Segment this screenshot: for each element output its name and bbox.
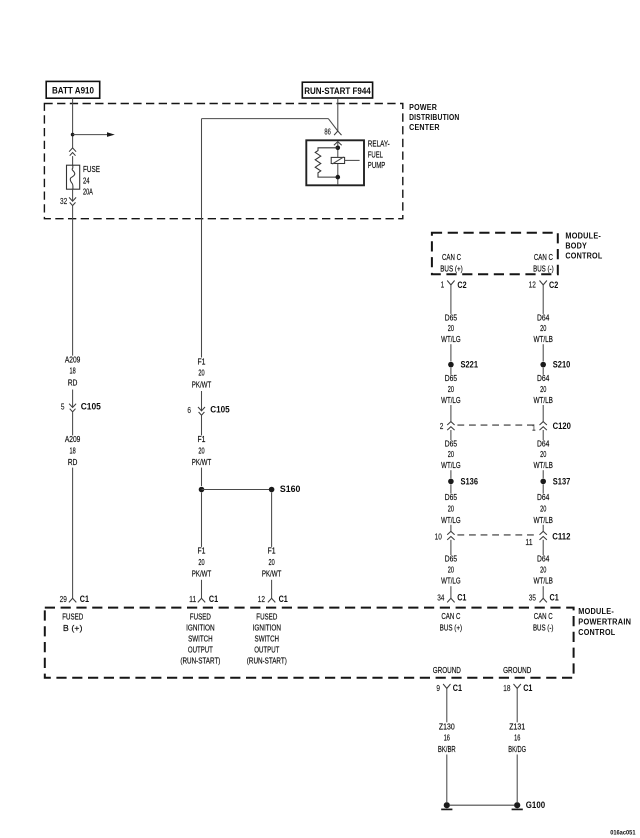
connector C120 right half pin 1 [532,421,571,432]
svg-text:BUS (+): BUS (+) [440,263,463,273]
relay pin 86 chevron inside [334,142,342,146]
wire D64 20 WT/LB segment 1 [542,285,544,314]
power distribution center dashed box [44,104,402,219]
svg-text:IGNITION: IGNITION [253,623,282,633]
svg-text:D64: D64 [537,373,549,383]
svg-text:20: 20 [448,504,454,514]
wire between ground points [450,804,514,806]
svg-text:20: 20 [540,504,546,514]
svg-text:C2: C2 [549,280,558,290]
svg-text:F1: F1 [198,357,206,367]
wire run-start feed down to C105 [201,119,203,358]
connector C1 pin 29 fork [60,594,89,604]
wire right leg to PCM pin 12 [271,580,273,599]
wire from RUN-START F944 down to relay pin 86 [337,98,339,131]
svg-text:C112: C112 [552,532,570,542]
svg-text:1: 1 [441,281,445,290]
relay coil winding [315,148,338,177]
svg-text:F1: F1 [198,545,206,555]
svg-text:BODY: BODY [565,241,587,250]
wire D64 segment 7 [542,485,544,494]
wire D65 segment 4 [450,405,452,422]
svg-text:MODULE-: MODULE- [578,607,614,616]
svg-text:D65: D65 [445,554,457,564]
svg-text:C1: C1 [80,594,89,604]
svg-text:D65: D65 [445,312,457,322]
svg-text:OUTPUT: OUTPUT [254,644,279,654]
wire D65 segment 10 [450,586,452,598]
svg-text:A209: A209 [65,355,81,365]
svg-text:86: 86 [324,128,331,137]
wire label A209 18 RD [65,355,81,388]
svg-text:(RUN-START): (RUN-START) [247,656,287,666]
svg-text:RELAY-: RELAY- [368,138,390,148]
wire label D65 20 WT/LG block 4 [441,492,461,525]
label FUSED IGNITION SWITCH OUTPUT (RUN-START) left [180,612,220,666]
wire D64 segment 6 [542,470,544,478]
svg-text:WT/LG: WT/LG [441,515,461,525]
label RELAY-FUEL PUMP [368,138,390,170]
wire below fuse [72,189,74,201]
wire down to splice S160 [201,468,203,486]
svg-text:F1: F1 [198,434,206,444]
svg-text:9: 9 [436,684,440,693]
svg-text:POWERTRAIN: POWERTRAIN [578,617,631,626]
svg-text:GROUND: GROUND [433,665,461,675]
svg-text:10: 10 [435,532,443,541]
wire label D64 20 WT/LB block 2 [533,373,553,405]
wire label D64 20 WT/LB block 1 [533,312,553,344]
svg-text:D64: D64 [537,554,549,564]
wire Z130 lower segment to ground [446,755,448,803]
wire below C105 left [72,412,74,435]
wire D64 segment 10 [542,586,544,598]
connector C1 pin 12 fork [258,594,288,604]
svg-text:C2: C2 [457,280,466,290]
svg-text:C1: C1 [523,683,532,693]
connector C105 pin 5 [61,402,101,412]
wire D65 segment 9 [450,540,452,555]
node junction at battery feed [71,133,75,137]
label GROUND left [433,665,461,675]
wire Z131 16 BK/DG upper segment [516,688,518,722]
svg-text:D65: D65 [445,373,457,383]
connector C1 pin 34 fork [437,592,466,602]
svg-text:GROUND: GROUND [503,665,531,675]
diagram id 016ac051 [610,830,636,837]
svg-text:C1: C1 [279,594,288,604]
wire above C105 pin 5 [72,390,74,408]
label MODULE-POWERTRAIN CONTROL [578,607,631,637]
power source label RUN-START F944 [302,82,372,98]
svg-text:16: 16 [514,733,520,743]
wire D64 segment 9 [542,540,544,555]
svg-text:CAN C: CAN C [534,252,553,262]
label FUSED B (+) [62,612,83,633]
svg-text:RD: RD [68,378,78,388]
svg-text:FUSED: FUSED [190,612,211,622]
svg-text:20: 20 [448,564,454,574]
splice S210 [540,360,570,370]
svg-text:D64: D64 [537,312,549,322]
svg-text:C120: C120 [553,421,571,431]
label GROUND right [503,665,531,675]
power source label BATT A910 [46,81,99,98]
svg-text:CAN C: CAN C [534,611,553,621]
ground G100 [512,800,545,810]
svg-text:S160: S160 [280,484,301,494]
wire label D64 20 WT/LB block 4 [533,492,553,525]
connector C120 left half pin 2 [440,422,455,431]
svg-text:MODULE-: MODULE- [565,231,601,240]
svg-text:S210: S210 [553,360,571,370]
svg-text:S221: S221 [461,360,479,370]
svg-text:BUS (+): BUS (+) [440,622,463,632]
label MODULE-BODY CONTROL [565,231,602,260]
dashed link C112 [457,534,535,536]
wire D64 segment 5 [542,430,544,440]
svg-text:CAN C: CAN C [441,611,460,621]
connector C1 pin 11 fork [189,594,218,604]
svg-text:CAN C: CAN C [442,252,461,262]
wire label F1 20 PK/WT right leg [262,545,282,578]
svg-text:WT/LG: WT/LG [441,334,461,344]
splice S221 [448,360,478,370]
svg-text:(RUN-START): (RUN-START) [180,656,220,666]
svg-text:WT/LG: WT/LG [441,460,461,470]
wire D65 segment 6 [450,470,452,478]
wire D65 segment 2 [450,344,452,361]
svg-text:12: 12 [529,281,537,290]
svg-text:CENTER: CENTER [409,123,440,132]
wire D64 segment 2 [542,344,544,361]
wire label D65 20 WT/LG block 5 [441,554,461,586]
wire fuse to C105 [72,206,74,356]
label CAN C BUS (-) powertrain [533,611,554,632]
svg-text:20: 20 [448,384,454,394]
label POWER DISTRIBUTION CENTER [409,103,459,132]
wire D64 segment 4 [542,405,544,422]
svg-text:6: 6 [187,406,191,415]
wire D64 segment 8 [542,525,544,532]
wire right leg below S160 [271,492,273,547]
svg-text:C105: C105 [210,405,230,415]
svg-text:20: 20 [198,368,204,378]
svg-text:20: 20 [269,557,275,567]
svg-text:F1: F1 [268,545,276,555]
svg-text:FUSE: FUSE [83,164,100,174]
connector pin 32 chevrons [60,197,76,206]
connector C105 pin 6 [187,405,229,416]
svg-text:IGNITION: IGNITION [186,623,215,633]
svg-text:20: 20 [448,449,454,459]
relay coil terminal node bottom [336,175,341,180]
connector pin 86 fork [324,128,341,137]
splice S136 [448,476,478,486]
svg-text:20: 20 [198,446,204,456]
svg-text:18: 18 [70,446,76,456]
svg-text:20: 20 [448,323,454,333]
svg-text:24: 24 [83,175,90,185]
svg-text:PK/WT: PK/WT [192,457,212,467]
svg-text:5: 5 [61,403,65,412]
label CAN C BUS (+) body [440,252,463,273]
svg-text:34: 34 [437,594,445,603]
relay switch contact [331,157,344,164]
svg-text:BUS (-): BUS (-) [533,263,554,273]
svg-text:20: 20 [198,557,204,567]
svg-text:FUSED: FUSED [62,612,83,622]
svg-text:PK/WT: PK/WT [192,569,212,579]
wire label F1 20 PK/WT left leg [192,545,212,578]
svg-text:C1: C1 [453,683,462,693]
wire label Z131 16 BK/DG [508,722,526,755]
svg-text:C1: C1 [550,592,559,602]
svg-text:PK/WT: PK/WT [262,569,282,579]
wire from BATT A910 to fuse [72,98,74,148]
svg-text:OUTPUT: OUTPUT [188,644,213,654]
svg-text:WT/LB: WT/LB [533,395,553,405]
svg-text:WT/LB: WT/LB [533,515,553,525]
svg-text:BUS (-): BUS (-) [533,622,554,632]
svg-text:16: 16 [444,733,450,743]
svg-text:20: 20 [540,384,546,394]
svg-text:BK/BR: BK/BR [438,744,456,754]
module-powertrain control dashed box [45,608,574,678]
wire D65 segment 8 [450,525,452,532]
svg-text:D64: D64 [537,438,549,448]
svg-text:WT/LB: WT/LB [533,334,553,344]
svg-text:2: 2 [440,422,444,431]
connector C2 pin 12 fork [529,280,559,290]
label FUSE 24 20A [83,164,100,196]
svg-text:D65: D65 [445,492,457,502]
wire Z131 lower segment to ground [516,755,518,803]
svg-text:BK/DG: BK/DG [508,744,526,754]
dashed link C120 [457,424,535,426]
svg-text:C1: C1 [457,592,466,602]
relay center conductor [337,142,339,185]
connector C2 pin 1 fork [441,280,467,290]
svg-text:D64: D64 [537,492,549,502]
wire D64 segment 3 [542,368,544,375]
svg-text:WT/LB: WT/LB [533,460,553,470]
svg-text:WT/LG: WT/LG [441,395,461,405]
svg-text:20: 20 [540,323,546,333]
wire label D64 20 WT/LB block 5 [533,554,553,586]
svg-text:A209: A209 [65,434,81,444]
svg-text:11: 11 [189,595,197,604]
wire below C105 pin 6 [201,416,203,436]
svg-text:12: 12 [258,595,266,604]
svg-text:S137: S137 [553,476,571,486]
svg-text:SWITCH: SWITCH [188,633,213,643]
wire label Z130 16 BK/BR [438,722,456,755]
svg-text:CONTROL: CONTROL [578,628,615,637]
svg-text:11: 11 [525,538,533,547]
svg-text:CONTROL: CONTROL [565,251,602,260]
wire left leg below S160 [201,492,203,547]
splice S137 [540,476,570,486]
connector chevrons above fuse [69,148,76,156]
label CAN C BUS (-) body [533,252,554,273]
wire above C105 pin 6 [201,391,203,411]
splice S160 [199,484,301,494]
wire label D65 20 WT/LG block 2 [441,373,461,405]
wire Z130 16 BK/BR upper segment [446,688,448,722]
svg-text:G100: G100 [526,800,545,810]
svg-text:BATT A910: BATT A910 [52,85,94,95]
relay coil terminal node top [336,146,341,151]
connector C1 pin 35 fork [529,592,559,602]
fuse 24 20A [67,165,80,189]
svg-text:20: 20 [540,449,546,459]
svg-text:FUSED: FUSED [256,612,277,622]
wire D65 segment 5 [450,430,452,440]
svg-text:Z130: Z130 [439,722,455,732]
wire into fuse [72,156,74,165]
wire branch arrow to right [73,132,115,137]
svg-text:RUN-START F944: RUN-START F944 [304,86,371,96]
wire label D65 20 WT/LG block 1 [441,312,461,344]
svg-text:RD: RD [68,457,78,467]
svg-text:35: 35 [529,594,537,603]
svg-text:32: 32 [60,197,68,206]
svg-text:PUMP: PUMP [368,160,386,170]
relay armature lead [345,159,360,161]
relay-fuel pump box [306,140,364,185]
connector C112 right half pin 11 [525,531,570,546]
connector C1 pin 9 fork [436,683,462,693]
svg-text:Z131: Z131 [509,722,525,732]
connector C112 left half pin 10 [435,531,455,541]
svg-text:C1: C1 [209,594,218,604]
svg-text:20A: 20A [83,186,93,196]
svg-text:18: 18 [70,366,76,376]
wire D65 segment 3 [450,368,452,375]
svg-text:20: 20 [540,564,546,574]
svg-text:C105: C105 [81,402,101,412]
connector C1 pin 18 fork [503,683,532,693]
svg-text:SWITCH: SWITCH [255,633,280,643]
label FUSED IGNITION SWITCH OUTPUT (RUN-START) right [247,612,287,666]
svg-text:WT/LG: WT/LG [441,576,461,586]
svg-text:S136: S136 [461,476,479,486]
wire left leg to PCM pin 11 [201,580,203,599]
svg-text:FUEL: FUEL [368,150,383,160]
label CAN C BUS (+) powertrain [440,611,463,632]
svg-text:DISTRIBUTION: DISTRIBUTION [409,113,459,122]
svg-text:POWER: POWER [409,103,437,112]
wire D65 segment 7 [450,485,452,494]
wire label D65 20 WT/LG block 3 [441,438,461,470]
wire A209 down to PCM pin 29 [72,468,74,599]
svg-text:016ac051: 016ac051 [610,830,636,837]
svg-text:29: 29 [60,595,68,604]
wire label D64 20 WT/LB block 3 [533,438,553,470]
module-body control dashed box [432,233,558,275]
svg-text:B (+): B (+) [63,623,83,633]
svg-text:WT/LB: WT/LB [533,576,553,586]
wire label F1 20 PK/WT upper [192,357,212,390]
ground symbol left [441,802,452,809]
svg-text:D65: D65 [445,438,457,448]
wire label F1 20 PK/WT below C105 [192,434,212,467]
wire D65 20 WT/LG segment 1 [450,285,452,314]
wire label A209 18 RD below C105 [65,434,81,467]
wire horizontal run to fuel pump relay [202,119,338,131]
svg-text:PK/WT: PK/WT [192,379,212,389]
svg-text:18: 18 [503,684,511,693]
